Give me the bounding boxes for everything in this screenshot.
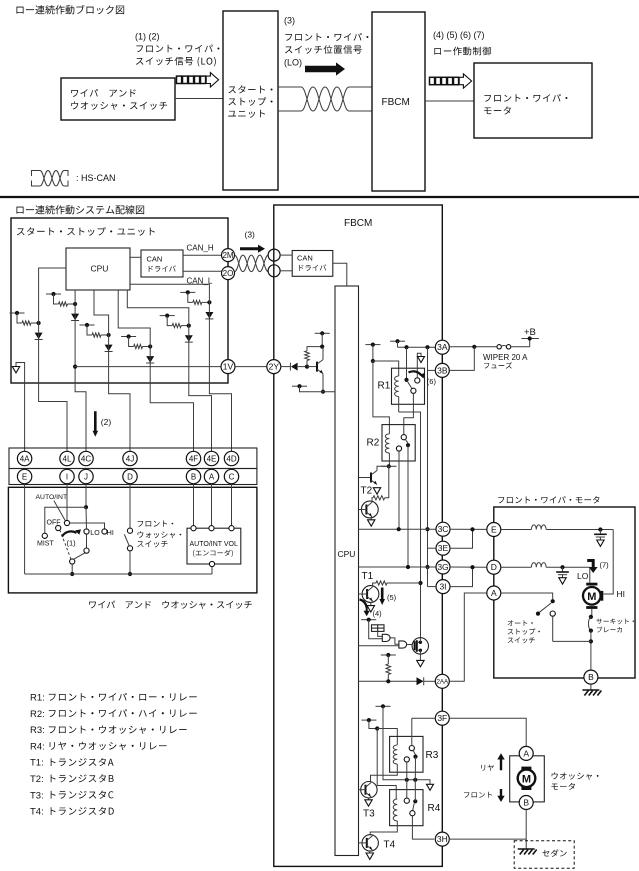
svg-text:T4:: T4: xyxy=(30,807,44,818)
svg-text:CAN_H: CAN_H xyxy=(187,244,214,253)
svg-text:R3:: R3: xyxy=(30,725,45,736)
svg-text:4C: 4C xyxy=(81,454,91,463)
svg-text:LO: LO xyxy=(577,571,589,581)
svg-text:T1: T1 xyxy=(362,571,374,582)
wire osc to gate1 input xyxy=(378,631,383,636)
svg-text:FBCM: FBCM xyxy=(382,97,410,108)
wire 3C line xyxy=(359,528,437,530)
pin 3C xyxy=(436,522,450,536)
svg-text:M: M xyxy=(522,773,531,785)
relay R2 box xyxy=(382,425,415,461)
wire cell5 to pin 4E xyxy=(189,326,212,452)
svg-text:C: C xyxy=(229,472,235,481)
svg-text:FBCM: FBCM xyxy=(344,218,372,229)
pin 2AA xyxy=(435,674,449,688)
svg-text:R2: R2 xyxy=(367,438,380,449)
pin 2M xyxy=(222,249,235,262)
pin C xyxy=(224,469,238,483)
pin D xyxy=(123,469,137,483)
svg-text:: HS-CAN: : HS-CAN xyxy=(76,173,116,183)
wire 3C to E xyxy=(450,528,487,530)
contact MIST with wire to J junction xyxy=(42,533,47,538)
switch common bus xyxy=(25,573,212,575)
wire to HI brush xyxy=(603,530,613,595)
svg-text:E: E xyxy=(491,525,497,535)
relay R2 NC contact to 3C line xyxy=(396,446,401,451)
relay R2 arm xyxy=(405,439,408,443)
svg-text:R2:: R2: xyxy=(30,709,45,720)
relay R1 common feed from 3A line xyxy=(406,347,408,380)
block: start-stop unit xyxy=(223,11,278,190)
logic gate 1 xyxy=(382,634,390,641)
wire stub node to gate1 input xyxy=(369,620,383,639)
motor D winding choke xyxy=(501,566,532,568)
IC: CAN driver (start-stop unit) xyxy=(141,250,183,277)
svg-text:R4: R4 xyxy=(428,803,441,814)
svg-text:T3: T3 xyxy=(363,809,375,820)
mosfet (circled) relay driver xyxy=(412,638,428,654)
block: wiper and washer switch xyxy=(61,78,175,120)
supply stub 1 (contacts common) xyxy=(376,705,391,707)
wire 3F to washer motor A xyxy=(449,718,526,746)
wire 3A line (+B feed) xyxy=(398,346,436,348)
fuse WIPER 20A xyxy=(497,345,501,349)
curved arrow (6) xyxy=(409,371,422,375)
relay R1 box xyxy=(392,368,425,404)
pin E xyxy=(17,469,31,483)
box: wiper and washer switch xyxy=(8,487,257,593)
wire 3B to 3A junction (inside) xyxy=(428,369,436,371)
relay R1 NO contact to direction arrow (6) xyxy=(415,378,420,383)
svg-text:R4:: R4: xyxy=(30,741,45,752)
wire 3A to fuse xyxy=(449,346,497,348)
separator line xyxy=(0,196,639,198)
T2 driver node junction xyxy=(387,464,391,468)
wire R4 coil return to T4 collector xyxy=(370,821,397,835)
svg-text:(1): (1) xyxy=(67,539,77,548)
svg-text:(3): (3) xyxy=(284,16,295,26)
svg-text:AUTO/INT: AUTO/INT xyxy=(36,494,68,501)
pin 3I xyxy=(436,580,450,594)
wire 3I to 3G (inside) xyxy=(428,586,437,588)
svg-text:R1: R1 xyxy=(378,381,391,392)
wire to R3 coil xyxy=(377,729,397,746)
svg-text:3G: 3G xyxy=(437,562,448,572)
wire R3 coil return to T3 collector xyxy=(371,764,398,781)
svg-text:B: B xyxy=(523,798,529,808)
wire 2AA line xyxy=(359,680,417,682)
transistor T3 (circled) xyxy=(361,782,377,798)
contact AUTO/INT xyxy=(64,520,69,525)
pin J xyxy=(79,469,93,483)
pin 2Y xyxy=(235,366,267,368)
svg-text:4E: 4E xyxy=(207,454,217,463)
relay R3 coil xyxy=(393,745,397,764)
wire CPU left to cell1 vertical xyxy=(39,268,66,323)
wire I pin to AUTO/INT contact xyxy=(66,484,68,521)
wire CPU bottom to cell4 vertical xyxy=(118,290,150,347)
T1 collector resistor to R1-coil node xyxy=(373,583,376,586)
T2 emitter ground arrow xyxy=(370,517,372,520)
mosfet source to ground arrow xyxy=(419,650,421,660)
contact HI xyxy=(102,529,107,534)
IC: CAN driver (FBCM) xyxy=(292,251,333,277)
svg-text:OFF: OFF xyxy=(47,520,61,527)
wire pivot to bus xyxy=(71,564,73,574)
svg-text:B: B xyxy=(588,672,594,682)
corner arrow (7) xyxy=(587,559,597,573)
pin 2O xyxy=(222,267,235,280)
wire 2AA to A (outside) xyxy=(449,593,487,681)
wire CPU to CAN driver xyxy=(130,256,141,258)
wire CPU bottom to cell2 vertical xyxy=(74,290,76,304)
black arrow (5) xyxy=(379,588,385,606)
svg-text:LO: LO xyxy=(90,530,100,537)
rear/front direction arrows xyxy=(497,753,504,770)
wire CPU bottom to cell3 vertical xyxy=(94,290,109,335)
svg-text:MIST: MIST xyxy=(37,541,54,548)
supply stub for relay coils R1/R2 xyxy=(365,344,380,346)
relay R3 top contact from 3F xyxy=(409,746,414,751)
svg-text:2Y: 2Y xyxy=(269,362,280,372)
svg-text:T2:: T2: xyxy=(30,774,44,785)
pin 4E xyxy=(204,451,218,465)
pullup cell 4 (to 4F): resistor + zener diode xyxy=(121,336,136,338)
IC: CPU (FBCM) tall box xyxy=(335,286,359,856)
pin 4A xyxy=(17,451,31,465)
box: start-stop unit xyxy=(11,218,228,383)
pin A (motor) xyxy=(487,586,501,600)
svg-text:+B: +B xyxy=(524,327,536,338)
box: FBCM xyxy=(274,205,443,866)
wire gate1 to gate2 xyxy=(391,638,399,644)
svg-text:3E: 3E xyxy=(438,543,449,553)
supply stub for 3A line xyxy=(390,340,405,342)
pin 3B xyxy=(435,363,449,377)
svg-text:M: M xyxy=(587,591,596,603)
svg-text:4L: 4L xyxy=(63,454,72,463)
wire to R4 coil xyxy=(377,729,396,800)
pull-down resistor stub to 2AA line xyxy=(381,654,396,656)
svg-text:A: A xyxy=(491,588,497,598)
svg-text:3A: 3A xyxy=(437,342,448,352)
svg-text:2AA: 2AA xyxy=(436,679,449,686)
wire breaker to B xyxy=(590,631,592,671)
wire 3G line xyxy=(359,566,437,568)
wire R4 arm contact to 3H xyxy=(412,816,434,839)
pin 4F xyxy=(186,451,200,465)
pin B (motor) xyxy=(584,670,598,684)
wire CPU right to cell6 vertical xyxy=(130,284,209,302)
black arrow (2) between unit and connector xyxy=(93,411,99,436)
svg-text:CAN: CAN xyxy=(147,255,163,264)
connector band row 4A-4D xyxy=(9,448,257,469)
svg-text:T4: T4 xyxy=(384,840,396,851)
svg-text:(1) (2): (1) (2) xyxy=(135,32,160,42)
svg-text:4A: 4A xyxy=(20,454,30,463)
motor B ground xyxy=(590,684,592,690)
pin 3H xyxy=(435,832,449,846)
wire cell2 to pin 4C with 1V tap junction xyxy=(75,304,86,452)
pin 4L xyxy=(60,451,74,465)
wire CAN driver to FBCM CPU xyxy=(333,263,347,286)
washer motor M xyxy=(521,767,531,772)
relay R2 common contact xyxy=(401,435,406,440)
relay R4 coil xyxy=(393,799,397,821)
svg-text:1V: 1V xyxy=(223,362,234,372)
svg-text:(5): (5) xyxy=(387,593,397,602)
svg-text:D: D xyxy=(491,562,497,572)
IC: CPU (start-stop unit) xyxy=(66,248,130,290)
svg-text:A: A xyxy=(209,472,215,481)
box: front wiper motor xyxy=(494,507,635,678)
wire washer B to sedan ground xyxy=(525,810,527,850)
circuit breaker xyxy=(589,615,593,619)
washer motor frame xyxy=(510,756,545,802)
pull-up resistor on 2Y node xyxy=(305,351,310,361)
pullup cell 5 (to 4E): resistor + zener diode xyxy=(160,315,175,317)
svg-text:2M: 2M xyxy=(222,251,233,260)
capacitor to ground (E) xyxy=(599,530,601,535)
emitter ground arrow xyxy=(373,488,380,494)
transistor T2 (bare) driving R2 coil xyxy=(359,477,372,479)
wire 3I to D line (outside) xyxy=(450,567,473,586)
relay R4 contacts from contacts line xyxy=(404,798,409,803)
svg-text:4J: 4J xyxy=(126,454,134,463)
wire gate2 to mosfet gate xyxy=(407,644,412,646)
pin I xyxy=(60,469,74,483)
svg-text:(3): (3) xyxy=(245,230,256,240)
+B supply terminal xyxy=(529,339,531,347)
wire CPU to gate2 second input xyxy=(359,645,399,647)
wire switch to start-stop unit xyxy=(175,98,223,100)
pin 3A xyxy=(435,340,449,354)
motor M (front wiper) xyxy=(583,587,601,605)
wire cell3 to pin 4J xyxy=(109,335,130,452)
pin 4D xyxy=(224,451,238,465)
wire cell1 to pin 4L xyxy=(39,323,67,452)
svg-text:(4): (4) xyxy=(373,609,383,618)
black arrow (3) xyxy=(305,62,345,75)
svg-text:(6): (6) xyxy=(427,377,437,386)
wire 3E to E line (outside) xyxy=(450,529,473,548)
svg-text:3C: 3C xyxy=(438,524,449,534)
wires FBCM connector to CAN driver xyxy=(280,254,292,256)
pin 3G xyxy=(436,560,450,574)
block: FBCM xyxy=(372,12,425,191)
svg-text:CPU: CPU xyxy=(91,264,109,274)
pin A (washer) xyxy=(519,746,533,760)
pullup cell 1 (to 4L): resistor + zener diode xyxy=(10,312,25,314)
svg-text:A: A xyxy=(523,748,529,758)
wire 3H out xyxy=(449,838,526,840)
wires B/A/C pins to AUTO/INT VOL encoder xyxy=(193,484,195,526)
wire to LO brush xyxy=(589,567,591,583)
diode on 2AA line xyxy=(417,677,424,685)
pullup cell 2 (to 4C): resistor + zener diode xyxy=(46,293,61,295)
pin 1V xyxy=(75,366,222,368)
wire motor to circuit breaker xyxy=(591,609,593,617)
svg-text:D: D xyxy=(127,472,133,481)
wire coil supply to R1 coil xyxy=(373,361,399,376)
connector band row E-C xyxy=(9,469,257,485)
svg-text:J: J xyxy=(84,472,88,481)
svg-text:AUTO/INT VOL: AUTO/INT VOL xyxy=(190,541,238,548)
rotary switch pivot and arm xyxy=(70,559,75,564)
svg-text:(4) (5) (6) (7): (4) (5) (6) (7) xyxy=(433,30,485,40)
svg-text:(LO): (LO) xyxy=(284,58,302,68)
oscillator component xyxy=(372,625,385,632)
svg-text:(2): (2) xyxy=(101,417,112,427)
svg-text:4F: 4F xyxy=(189,454,198,463)
pin A xyxy=(204,469,218,483)
relay R4 box xyxy=(390,790,423,826)
base resistor of T2 stage xyxy=(373,496,385,500)
wire 3E to 3C (inside) xyxy=(428,547,437,549)
front washer switch contacts and arm xyxy=(127,528,132,533)
wire 3G to D xyxy=(450,566,487,568)
stub node below T1 xyxy=(361,619,376,621)
relay R3 arm xyxy=(413,750,416,754)
digital signal arrow from switch to start-stop unit xyxy=(177,76,182,83)
relay R3 box xyxy=(390,736,423,772)
svg-text:I: I xyxy=(66,472,68,481)
relay R1 coil xyxy=(395,376,399,397)
twisted pair 2M/2O to FBCM connector xyxy=(235,255,269,272)
wire E pin to common bus xyxy=(24,484,26,574)
transistor T2 (circled) xyxy=(361,501,378,518)
svg-text:2O: 2O xyxy=(223,269,234,278)
pin 4J xyxy=(123,451,137,465)
wire CPU bottom to cell5 vertical xyxy=(127,290,189,326)
svg-text:CPU: CPU xyxy=(338,549,356,559)
2Y input diode xyxy=(281,366,291,368)
wire R1 arm to R2 common contact xyxy=(404,393,414,434)
relay R1 arm xyxy=(407,380,413,389)
pin B (washer) xyxy=(519,796,533,810)
svg-text:(7): (7) xyxy=(600,561,610,570)
long vertical 3B/3C/3G tie line xyxy=(427,347,429,567)
FBCM inline connector circles xyxy=(268,249,280,261)
supply stub (2Y buffer) xyxy=(315,332,330,334)
pullup cell 6 (to 4D): resistor + zener diode xyxy=(180,291,195,293)
pin E (motor) xyxy=(487,523,501,537)
svg-text:R1:: R1: xyxy=(30,693,45,704)
svg-text:T2: T2 xyxy=(361,486,373,497)
svg-text:3B: 3B xyxy=(437,365,448,375)
T1 emitter ground arrow xyxy=(370,602,372,605)
relay R4 arm xyxy=(413,803,415,810)
arm tip contact xyxy=(84,548,89,553)
wire coil supply to R2 coil xyxy=(373,361,390,434)
wire CAN driver to pin 2O xyxy=(183,270,222,272)
auto stop switch xyxy=(501,593,553,599)
svg-text:4D: 4D xyxy=(226,454,236,463)
box: AUTO/INT VOL encoder xyxy=(187,528,241,564)
svg-text:R3: R3 xyxy=(426,750,439,761)
contact LO xyxy=(84,529,89,534)
pullup cell 3 (to 4J): resistor + zener diode xyxy=(80,324,95,326)
svg-text:HI: HI xyxy=(107,530,114,537)
transistor (2Y input buffer) xyxy=(307,366,317,368)
pin 3F xyxy=(435,711,449,725)
logic gate 2 xyxy=(399,641,407,648)
wire FBCM to front wiper motor xyxy=(425,100,474,102)
pin 4C xyxy=(79,451,93,465)
wire 3A junction down to 3B xyxy=(449,347,474,371)
sedan ground xyxy=(518,848,535,850)
wire washer switch to bus xyxy=(129,551,131,574)
svg-text:B: B xyxy=(191,472,196,481)
wire stub1 to contacts line and direction arrow xyxy=(383,706,430,784)
pin B xyxy=(186,469,200,483)
transistor T4 (circled) xyxy=(362,835,378,851)
wire 3F into FBCM to R3 contact xyxy=(412,717,436,719)
svg-text:CAN: CAN xyxy=(297,254,313,263)
motor E winding choke xyxy=(501,529,532,531)
contact OFF xyxy=(56,525,61,530)
capacitor to ground (D) xyxy=(562,567,564,572)
wire CAN driver to pin 2M xyxy=(183,254,222,256)
wire J pin to LO contact and arm contact xyxy=(85,484,87,508)
wire R1 coil return to T1 node (long vertical) xyxy=(399,412,421,638)
supply stub 2 (coil supply R3/R4) xyxy=(361,719,376,721)
block: front wiper motor xyxy=(474,63,592,138)
twisted pair between start-stop unit and FBCM (block diagram) xyxy=(278,86,301,88)
wire AUTO/INT contact to HI contact xyxy=(70,523,105,529)
relay R2 coil xyxy=(385,434,389,453)
svg-text:T1:: T1: xyxy=(30,758,44,769)
wire cell6 to pin 4D xyxy=(209,302,231,451)
svg-text:3H: 3H xyxy=(437,834,448,844)
HS-CAN legend symbol xyxy=(32,171,41,177)
svg-text:3I: 3I xyxy=(439,582,446,592)
svg-text:WIPER 20 A: WIPER 20 A xyxy=(483,353,528,362)
svg-text:E: E xyxy=(22,472,27,481)
pin D (motor) xyxy=(487,560,501,574)
curved black arrow (4) xyxy=(360,600,367,608)
pin 3E xyxy=(436,541,450,555)
wire D pin to washer switch xyxy=(129,484,131,528)
svg-text:HI: HI xyxy=(617,589,626,599)
rotation arc arrow (1) xyxy=(62,531,77,536)
stub to CPU input line xyxy=(292,385,307,387)
encoder bottom contact to bus xyxy=(209,561,214,566)
wire R2 arm to 3G line xyxy=(407,445,409,567)
digital signal arrow FBCM to motor xyxy=(430,77,435,84)
relay R3 NC contact xyxy=(404,757,409,762)
wire cell4 to pin 4F xyxy=(150,347,193,452)
signal direction arrow at unit left edge (to 4A) xyxy=(16,363,25,452)
svg-text:T3:: T3: xyxy=(30,790,44,801)
svg-text:3F: 3F xyxy=(437,713,447,723)
